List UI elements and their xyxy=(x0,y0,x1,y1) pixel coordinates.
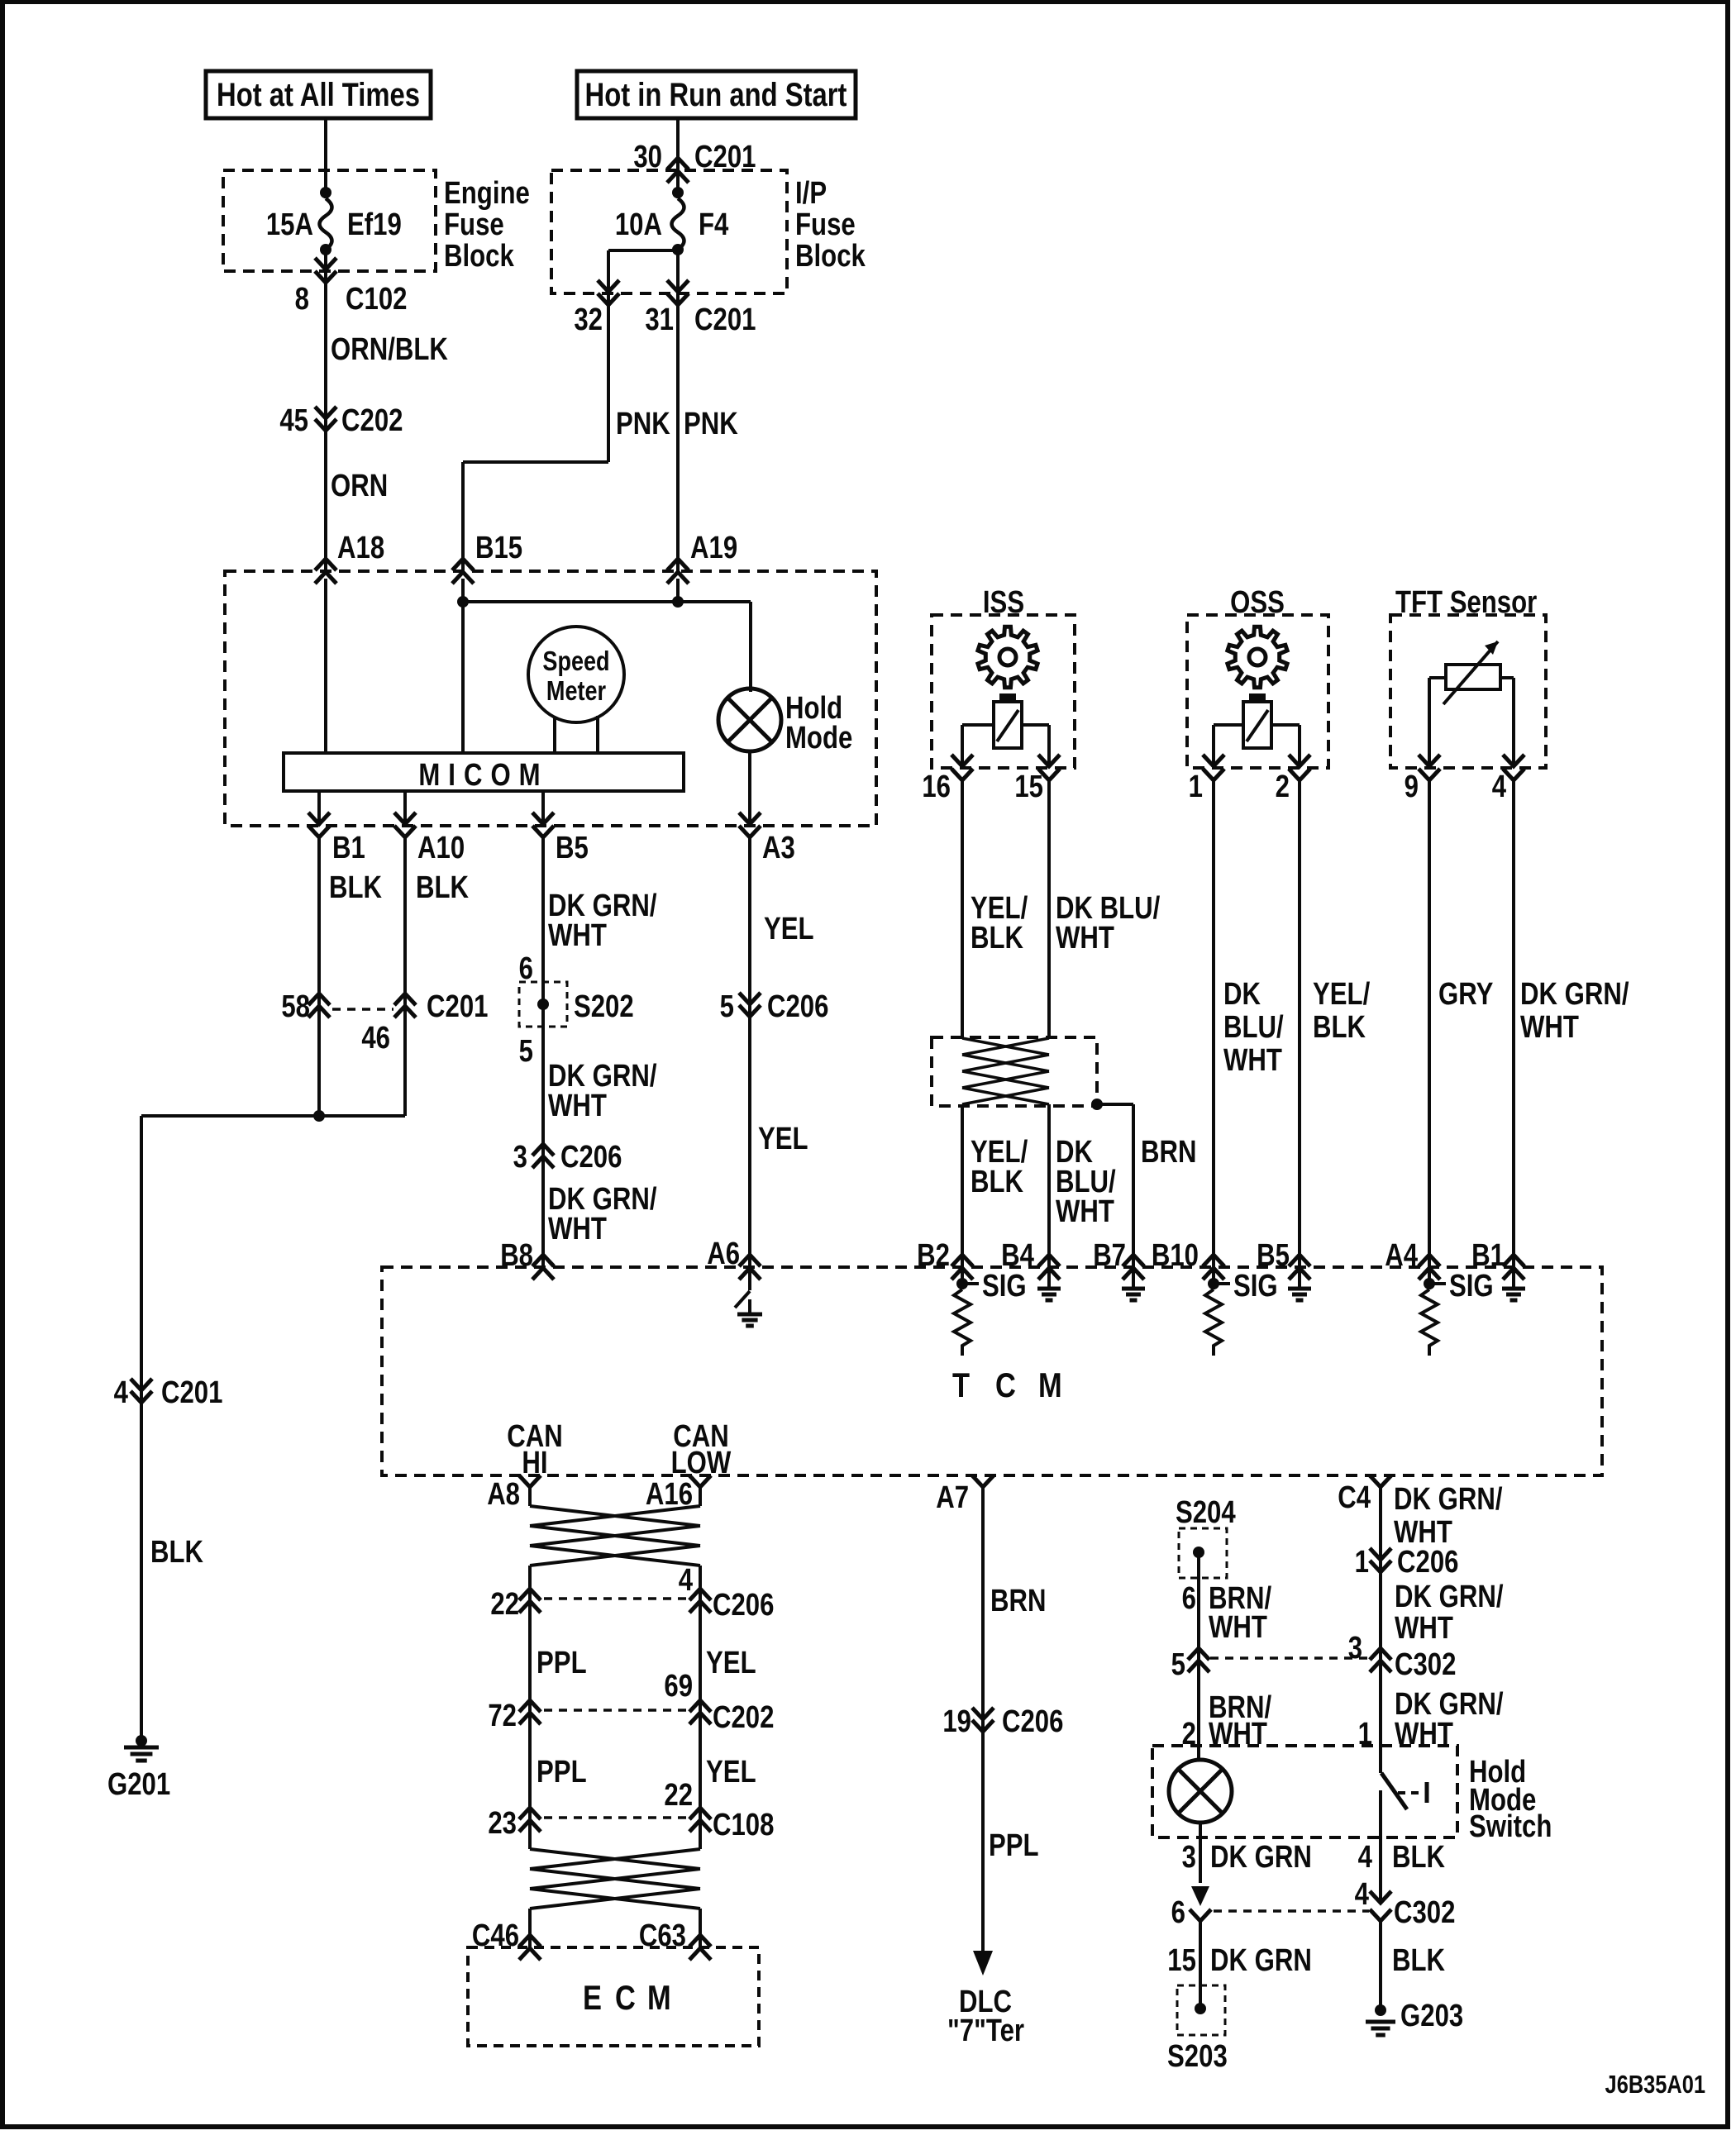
svg-text:A19: A19 xyxy=(690,531,737,565)
svg-text:4: 4 xyxy=(679,1563,694,1598)
svg-text:WHT: WHT xyxy=(548,918,607,953)
svg-text:WHT: WHT xyxy=(1395,1611,1453,1646)
svg-text:5: 5 xyxy=(720,989,734,1024)
svg-text:5: 5 xyxy=(519,1034,533,1069)
svg-text:32: 32 xyxy=(574,303,603,337)
svg-text:A10: A10 xyxy=(417,831,465,865)
svg-text:WHT: WHT xyxy=(548,1089,607,1123)
svg-text:23: 23 xyxy=(488,1806,517,1841)
svg-text:C201: C201 xyxy=(161,1375,222,1410)
svg-text:15A: 15A xyxy=(266,207,313,242)
svg-text:4: 4 xyxy=(1492,770,1507,804)
svg-text:C108: C108 xyxy=(713,1808,774,1842)
svg-text:22: 22 xyxy=(490,1587,519,1622)
svg-text:ORN: ORN xyxy=(331,469,388,503)
svg-text:DK GRN: DK GRN xyxy=(1210,1840,1312,1875)
svg-text:BLK: BLK xyxy=(1392,1840,1445,1875)
svg-text:S202: S202 xyxy=(574,989,634,1024)
svg-text:C4: C4 xyxy=(1338,1480,1371,1515)
svg-text:22: 22 xyxy=(664,1778,693,1813)
svg-text:3: 3 xyxy=(1348,1631,1362,1666)
svg-text:M: M xyxy=(1038,1366,1062,1405)
svg-text:BLK: BLK xyxy=(1313,1010,1366,1045)
svg-text:ORN/BLK: ORN/BLK xyxy=(331,332,448,367)
svg-text:WHT: WHT xyxy=(548,1212,607,1246)
svg-text:HI: HI xyxy=(522,1446,547,1480)
svg-text:A18: A18 xyxy=(337,531,384,565)
svg-text:B2: B2 xyxy=(917,1238,950,1273)
svg-text:B15: B15 xyxy=(475,531,522,565)
svg-text:F4: F4 xyxy=(699,207,729,242)
svg-text:31: 31 xyxy=(645,303,674,337)
svg-text:1: 1 xyxy=(1355,1545,1369,1580)
svg-text:46: 46 xyxy=(361,1021,390,1056)
svg-text:PPL: PPL xyxy=(989,1828,1039,1863)
svg-text:Fuse: Fuse xyxy=(444,207,504,242)
svg-text:Switch: Switch xyxy=(1469,1809,1552,1844)
svg-text:SIG: SIG xyxy=(982,1269,1027,1304)
svg-text:C206: C206 xyxy=(1002,1704,1063,1739)
svg-text:MICOM: MICOM xyxy=(418,758,548,793)
svg-text:YEL/: YEL/ xyxy=(1313,977,1371,1012)
svg-text:C: C xyxy=(995,1366,1016,1405)
svg-text:C201: C201 xyxy=(694,303,756,337)
svg-text:Fuse: Fuse xyxy=(795,207,856,242)
svg-text:1: 1 xyxy=(1189,770,1203,804)
svg-text:Hot in Run and Start: Hot in Run and Start xyxy=(585,76,847,113)
svg-text:E: E xyxy=(583,1979,602,2018)
svg-text:WHT: WHT xyxy=(1056,1194,1114,1229)
svg-text:C63: C63 xyxy=(639,1918,686,1953)
svg-text:Mode: Mode xyxy=(785,721,852,755)
svg-text:6: 6 xyxy=(1171,1895,1185,1930)
svg-text:16: 16 xyxy=(922,770,951,804)
svg-text:SIG: SIG xyxy=(1233,1269,1278,1304)
svg-text:4: 4 xyxy=(1355,1877,1370,1912)
svg-text:B1: B1 xyxy=(332,831,365,865)
svg-text:Block: Block xyxy=(444,239,514,274)
svg-text:C102: C102 xyxy=(346,282,407,317)
svg-text:C202: C202 xyxy=(341,403,403,438)
svg-text:LOW: LOW xyxy=(671,1446,732,1480)
svg-text:BLK: BLK xyxy=(971,1165,1023,1199)
svg-text:G203: G203 xyxy=(1400,1999,1463,2033)
svg-text:BLK: BLK xyxy=(416,870,469,905)
svg-text:BLU/: BLU/ xyxy=(1223,1010,1284,1045)
svg-text:BLK: BLK xyxy=(329,870,382,905)
svg-text:4: 4 xyxy=(114,1375,129,1410)
svg-text:I/P: I/P xyxy=(795,176,827,211)
svg-text:DK: DK xyxy=(1223,977,1261,1012)
svg-text:10A: 10A xyxy=(615,207,662,242)
svg-text:5: 5 xyxy=(1171,1647,1185,1682)
svg-text:BLK: BLK xyxy=(1392,1943,1445,1978)
svg-text:Block: Block xyxy=(795,239,866,274)
svg-text:DK GRN: DK GRN xyxy=(1210,1943,1312,1978)
svg-text:B7: B7 xyxy=(1093,1238,1126,1273)
svg-text:BLK: BLK xyxy=(150,1535,203,1570)
svg-text:YEL: YEL xyxy=(706,1646,756,1680)
svg-text:C206: C206 xyxy=(1397,1545,1458,1580)
svg-text:PPL: PPL xyxy=(537,1755,587,1790)
svg-text:3: 3 xyxy=(1182,1840,1196,1875)
svg-text:SIG: SIG xyxy=(1449,1269,1494,1304)
svg-text:WHT: WHT xyxy=(1056,921,1114,956)
svg-text:C302: C302 xyxy=(1395,1647,1456,1682)
svg-text:C206: C206 xyxy=(560,1140,622,1175)
svg-text:B5: B5 xyxy=(1257,1238,1290,1273)
svg-text:S204: S204 xyxy=(1176,1495,1236,1530)
svg-text:WHT: WHT xyxy=(1209,1610,1267,1645)
svg-text:8: 8 xyxy=(295,282,309,317)
svg-text:S203: S203 xyxy=(1167,2039,1228,2074)
svg-text:B10: B10 xyxy=(1152,1238,1199,1273)
svg-text:PNK: PNK xyxy=(684,407,738,441)
svg-text:"7"Ter: "7"Ter xyxy=(947,2014,1024,2048)
svg-text:C206: C206 xyxy=(713,1588,774,1623)
svg-text:C46: C46 xyxy=(472,1918,519,1953)
svg-text:B4: B4 xyxy=(1001,1238,1034,1273)
svg-text:Ef19: Ef19 xyxy=(347,207,402,242)
svg-text:C206: C206 xyxy=(767,989,828,1024)
svg-text:A7: A7 xyxy=(936,1480,969,1515)
svg-text:B1: B1 xyxy=(1471,1238,1505,1273)
svg-text:3: 3 xyxy=(513,1140,527,1175)
svg-text:PNK: PNK xyxy=(616,407,670,441)
svg-text:Speed: Speed xyxy=(542,647,609,677)
svg-text:2: 2 xyxy=(1276,770,1290,804)
svg-text:C202: C202 xyxy=(713,1700,774,1735)
svg-text:9: 9 xyxy=(1405,770,1419,804)
svg-text:G201: G201 xyxy=(107,1767,170,1802)
svg-text:58: 58 xyxy=(281,989,310,1024)
svg-text:YEL: YEL xyxy=(764,912,814,946)
svg-text:19: 19 xyxy=(942,1704,971,1739)
svg-text:Hot at All Times: Hot at All Times xyxy=(217,76,420,113)
svg-text:BRN: BRN xyxy=(990,1584,1046,1618)
svg-text:YEL: YEL xyxy=(758,1122,808,1156)
svg-text:45: 45 xyxy=(279,403,308,438)
svg-text:J6B35A01: J6B35A01 xyxy=(1605,2071,1705,2099)
svg-text:M: M xyxy=(647,1979,671,2018)
svg-text:C302: C302 xyxy=(1394,1895,1455,1930)
svg-text:WHT: WHT xyxy=(1223,1043,1282,1078)
svg-text:C201: C201 xyxy=(427,989,488,1024)
svg-text:B5: B5 xyxy=(556,831,589,865)
svg-text:GRY: GRY xyxy=(1438,977,1493,1012)
svg-text:A8: A8 xyxy=(487,1477,520,1512)
svg-text:Engine: Engine xyxy=(444,176,530,211)
svg-text:A4: A4 xyxy=(1385,1238,1418,1273)
svg-text:OSS: OSS xyxy=(1230,585,1285,620)
svg-text:T: T xyxy=(952,1366,971,1405)
svg-text:15: 15 xyxy=(1167,1943,1196,1978)
svg-text:BLK: BLK xyxy=(971,921,1023,956)
svg-text:A3: A3 xyxy=(762,831,795,865)
svg-text:15: 15 xyxy=(1014,770,1043,804)
svg-text:4: 4 xyxy=(1358,1840,1373,1875)
svg-text:69: 69 xyxy=(664,1669,693,1704)
svg-text:BRN: BRN xyxy=(1141,1135,1196,1170)
svg-text:YEL: YEL xyxy=(706,1755,756,1790)
svg-text:Meter: Meter xyxy=(546,677,606,707)
svg-text:PPL: PPL xyxy=(537,1646,587,1680)
svg-text:DK GRN/: DK GRN/ xyxy=(1520,977,1629,1012)
svg-text:WHT: WHT xyxy=(1520,1010,1579,1045)
svg-text:6: 6 xyxy=(1182,1581,1196,1616)
svg-text:DK GRN/: DK GRN/ xyxy=(1394,1482,1503,1517)
svg-text:DK GRN/: DK GRN/ xyxy=(1395,1580,1504,1614)
svg-text:72: 72 xyxy=(488,1699,517,1733)
svg-text:C: C xyxy=(615,1979,636,2018)
